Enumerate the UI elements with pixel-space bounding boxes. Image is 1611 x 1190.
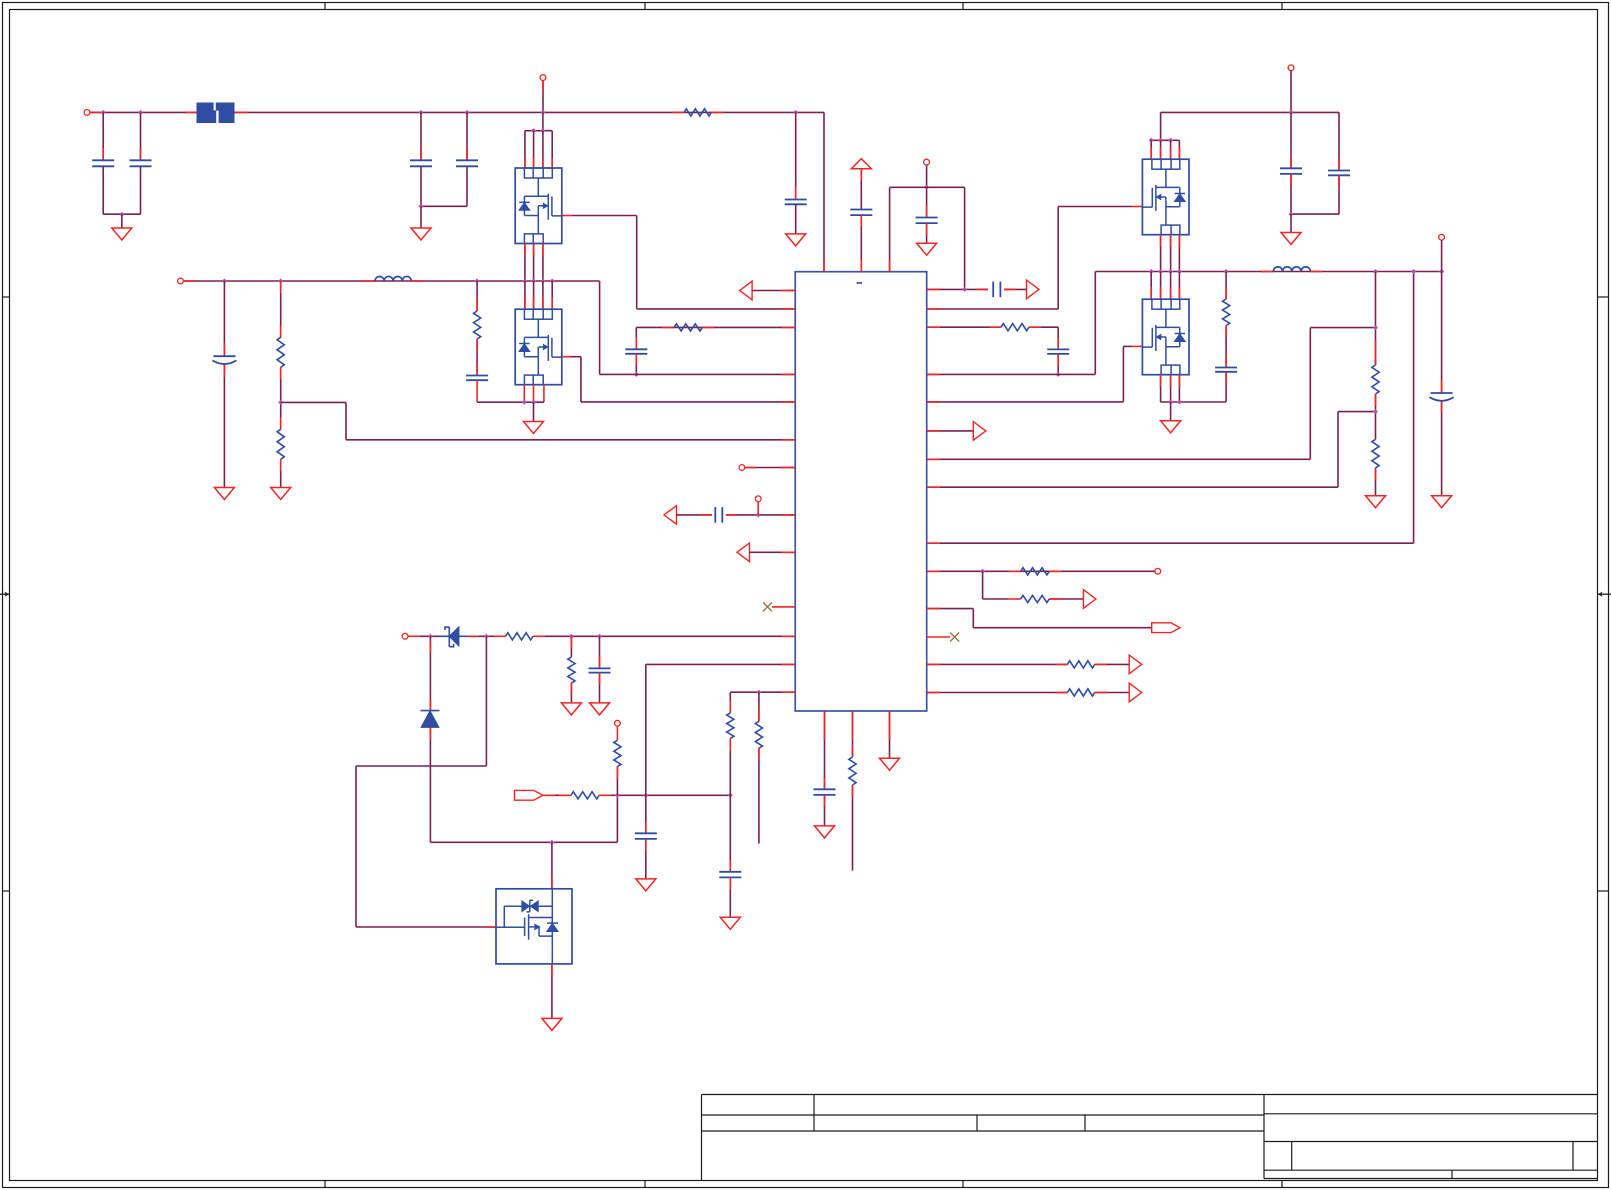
title block sub tick	[1451, 1170, 1453, 1178]
junction Q1 bus a	[531, 128, 536, 133]
wire pgood route	[972, 609, 974, 628]
junction Q4 src a	[1168, 400, 1173, 405]
Q2 channel arrow	[543, 345, 547, 350]
wire R11 lead	[758, 692, 760, 721]
fuse F1	[197, 103, 235, 124]
zener diode D1	[440, 635, 468, 637]
wire Q1 riser	[542, 112, 544, 130]
wire VIN2 rail	[1161, 111, 1339, 113]
wire Q3 drain bus	[1151, 139, 1179, 141]
Q1 top pin row	[524, 168, 552, 178]
wire Q5 drain riser	[551, 842, 553, 889]
Q1 bottom pin row	[524, 234, 543, 244]
Q5 mosfet symbol	[496, 889, 552, 940]
border tick bottom 2	[644, 1181, 646, 1188]
junction pin374R	[1056, 372, 1061, 377]
wire C9 lead	[599, 636, 601, 668]
wire red stub R8 left	[559, 794, 571, 796]
wire C9 bottom	[599, 673, 601, 703]
arrow pin290	[740, 281, 753, 300]
resistor R2	[277, 337, 284, 367]
resistor R3	[277, 429, 284, 459]
ground GND18	[1432, 496, 1452, 508]
wire R17 right	[1095, 692, 1130, 694]
wire VIN2 corner	[1338, 112, 1340, 170]
wire cap C1 lead	[102, 112, 104, 160]
wire Q3 gate route	[1057, 207, 1059, 310]
junction y795 c	[728, 793, 733, 798]
ground GND4	[214, 488, 234, 500]
wire boot rail	[430, 841, 617, 843]
capacitor C10	[635, 832, 657, 834]
flag PGOOD	[515, 790, 543, 800]
wire red stub IC pin327L	[782, 326, 795, 328]
junction y795 b	[643, 793, 648, 798]
wire J8 stem	[926, 165, 928, 218]
wire Q1 pin7	[542, 131, 544, 168]
wire Q2 source pins	[523, 385, 525, 403]
junction SW1 g	[550, 279, 555, 284]
wire red stub IC pin402L	[782, 401, 795, 403]
wire red stub R6 right	[533, 635, 545, 637]
junction SW1 a	[222, 279, 227, 284]
wire vout sense riser	[1413, 272, 1415, 544]
junction pin289	[962, 287, 967, 292]
junction VIN c	[419, 110, 424, 115]
wire CP1 bottom	[223, 365, 225, 488]
border center arrow right	[1598, 593, 1611, 595]
resistor R4	[474, 311, 481, 339]
wire vsense hi	[1309, 328, 1311, 460]
wire VCC stem	[860, 169, 862, 210]
junction pin692	[756, 690, 761, 695]
wire red Q4 drain stubs	[1150, 287, 1152, 299]
resistor R19	[1372, 365, 1379, 394]
capacitor C11	[719, 871, 741, 873]
capacitor C8 series	[714, 507, 716, 523]
flag pin609 flag	[1152, 623, 1180, 633]
wire bst right	[964, 187, 966, 289]
wire red stub L1 left	[363, 280, 375, 282]
wire Q1 source pins	[524, 244, 526, 282]
wire Q3 source pins	[1160, 235, 1162, 272]
wire J10 stem	[1290, 71, 1292, 113]
wire red stub J3	[183, 280, 196, 282]
wire Q4 source pins	[1160, 375, 1162, 402]
wire R11 bottom	[758, 748, 760, 843]
resistor R1	[684, 109, 711, 116]
wire R2-R3	[280, 367, 282, 429]
transistor Q1 body	[515, 168, 562, 244]
wire red stub pin637R	[927, 636, 950, 638]
wire vsense chain top	[1375, 272, 1377, 366]
wire R10 bottom	[729, 738, 731, 871]
wire Q3 pin6	[1160, 140, 1162, 159]
title block sub divider v4	[1291, 1142, 1293, 1171]
junction SW1 f	[540, 279, 545, 284]
border tick left 2	[3, 890, 10, 892]
wire pin309R	[927, 308, 1058, 310]
wire R20 bottom	[1375, 468, 1377, 496]
title block right box	[1264, 1095, 1597, 1179]
Q4 body diode	[1175, 333, 1185, 335]
Q2 body diode	[519, 343, 529, 345]
wire Q3 riser	[1160, 112, 1162, 140]
resistor R13	[1001, 324, 1029, 331]
junction SW2 a	[1149, 269, 1154, 274]
wire C1-C2 join	[103, 213, 140, 215]
wire pin459R	[927, 458, 1311, 460]
wire red stub Q3 gate	[1132, 206, 1142, 208]
junction zener b	[484, 634, 489, 639]
wire VIN rail	[90, 111, 824, 113]
wire red stub Q5 gate	[486, 926, 496, 928]
capacitor C15 series	[992, 282, 994, 298]
wire cap C3 lead	[420, 112, 422, 160]
wire C3 bottom	[420, 166, 422, 206]
wire bst left	[889, 187, 891, 271]
wire C5 bottom	[795, 204, 797, 234]
junction zener c	[569, 634, 574, 639]
wire R9 bottom	[616, 767, 618, 796]
junction VIN d	[465, 110, 470, 115]
junction vsense hi	[1373, 325, 1378, 330]
wire red stub R5 right	[702, 326, 714, 328]
wire cap C2 lead	[140, 112, 142, 160]
wire red Q2 drain stubs	[524, 297, 526, 309]
power symbol VCC	[851, 159, 871, 169]
wire Q3 pin8	[1178, 140, 1180, 159]
wire red R10 top	[729, 701, 731, 713]
wire pin664 net	[646, 663, 795, 665]
wire red stub L2 right	[1310, 271, 1322, 273]
wire pin289R	[927, 288, 988, 290]
wire J5 stem	[757, 502, 759, 515]
wire C16 bottom	[1057, 354, 1059, 375]
Q3 mosfet symbol	[1142, 169, 1179, 225]
junction boot	[549, 840, 554, 845]
junction Q3 bus a	[1149, 138, 1154, 143]
wire R18 lead	[1225, 272, 1227, 300]
border tick right 1	[1598, 296, 1609, 298]
wire pin327L	[636, 326, 795, 328]
junction VIN a	[101, 110, 106, 115]
border tick bottom 1	[324, 1181, 326, 1188]
wire gnd stem 5	[1170, 402, 1172, 421]
wire R7 lead	[570, 636, 572, 657]
wire pin664R	[927, 663, 1068, 665]
wire red Q1 source stubs	[524, 244, 526, 256]
wire pin692 net	[730, 691, 759, 693]
wire C18 bottom	[1338, 175, 1340, 214]
wire Q5 source	[551, 964, 553, 1019]
capacitor C9	[589, 667, 611, 669]
resistor R11	[755, 721, 762, 748]
wire R18 bottom	[1225, 326, 1227, 368]
Q5 body diode	[547, 922, 558, 924]
wire pin609R	[927, 608, 974, 610]
wire bst link	[890, 186, 965, 188]
wire C16 lead	[1057, 327, 1059, 349]
junction vsense lo	[1373, 409, 1378, 414]
wire C3-C4 join	[421, 205, 467, 207]
capacitor C16	[1047, 348, 1069, 350]
border tick bottom 3	[962, 1181, 964, 1188]
wire SW1 corner	[599, 281, 601, 374]
wire D2 lead	[429, 636, 431, 710]
wire y795 line	[611, 794, 730, 796]
wire pin402R	[927, 401, 1124, 403]
wire SW2 feed	[1094, 272, 1096, 375]
wire Q1 pin6	[533, 131, 535, 168]
wire C12 bottom	[824, 795, 826, 826]
border tick top 3	[962, 3, 964, 10]
Q2 bottom pin row	[524, 375, 543, 385]
border tick top 4	[1281, 3, 1283, 10]
wire flag lead	[543, 794, 571, 796]
wire red C10 lead	[645, 821, 647, 833]
wire Q1 pin8	[551, 131, 553, 168]
wire Q2 gate stub	[562, 356, 571, 358]
title block divider v1	[813, 1095, 815, 1132]
wire R3 bottom	[280, 459, 282, 487]
arrow pin515	[664, 506, 677, 525]
wire Q2 gate route	[571, 356, 581, 358]
wire vsense lo	[1337, 412, 1339, 488]
wire R12 bottom	[852, 785, 854, 871]
wire cap C4 lead	[466, 112, 468, 160]
ground GND10	[720, 917, 740, 929]
border tick right 2	[1598, 890, 1609, 892]
wire terminal J2 riser	[542, 80, 544, 112]
junction pin515	[756, 512, 761, 517]
wire pin374L	[600, 373, 796, 375]
wire R4 lead	[476, 281, 478, 311]
wire pin487R	[927, 486, 1338, 488]
wire SW1 rail	[183, 280, 599, 282]
wire red stub R6 left	[494, 635, 506, 637]
wire red stub IC pin374L	[782, 373, 795, 375]
wire R13 right	[1029, 326, 1058, 328]
title block sub divider v5	[1572, 1142, 1574, 1171]
arrow ss arrow	[1083, 590, 1096, 609]
wire C7 bottom	[635, 354, 637, 375]
ground GND5	[271, 488, 291, 500]
wire red stub R1 right	[711, 111, 723, 113]
ground GND11	[542, 1018, 562, 1030]
wire red stub F1 right	[235, 111, 249, 113]
wire R9 chain	[616, 723, 618, 740]
junction SW2 c	[1168, 269, 1173, 274]
junction zener a	[428, 634, 433, 639]
Q2 mosfet symbol	[524, 319, 561, 375]
wire gnd stem 4	[1290, 214, 1292, 232]
junction SW2 e	[1224, 269, 1229, 274]
capacitor C1	[92, 159, 114, 161]
Q4 bottom pin row	[1161, 365, 1180, 375]
junction VIN b	[138, 110, 143, 115]
wire R2 lead	[280, 281, 282, 337]
wire red stub L1 right	[411, 280, 423, 282]
title block divider v2	[976, 1115, 978, 1131]
wire VDD cap lead	[795, 112, 797, 199]
wire R7 bottom	[570, 683, 572, 703]
wire pin515 a	[677, 514, 713, 516]
junction Q3 bus b	[1158, 138, 1163, 143]
capacitor C4	[456, 159, 478, 161]
wire red stub R5 left	[662, 326, 674, 328]
capacitor C19	[1215, 367, 1237, 369]
wire gnd stem 3	[533, 402, 535, 421]
diode D2	[421, 710, 440, 712]
resistor R20	[1372, 439, 1379, 468]
wire J6 stub	[408, 635, 420, 637]
wire C14 bottom	[926, 223, 928, 243]
terminal J6	[402, 633, 408, 639]
wire FB1 route	[281, 401, 346, 403]
ground GND12	[815, 826, 835, 838]
wire D2 bottom	[429, 727, 431, 842]
junction SW2 d	[1177, 269, 1182, 274]
wire zener net a	[420, 635, 440, 637]
wire zener net c	[545, 635, 795, 637]
arrow pin552	[737, 543, 750, 562]
ground GND7	[561, 703, 581, 715]
ground GND13	[880, 758, 900, 770]
junction VIN2	[1289, 110, 1294, 115]
resistor R15	[1021, 595, 1050, 602]
ground GND6	[524, 422, 544, 434]
wire zener net b	[468, 635, 496, 637]
wire Q3 pin7	[1170, 140, 1172, 159]
wire red Q4 source stubs	[1160, 375, 1162, 387]
wire pin431R	[927, 430, 974, 432]
capacitor C12	[814, 788, 836, 790]
ground GND3	[786, 234, 806, 246]
junction Q3 bus c	[1168, 138, 1173, 143]
resistor R5	[674, 324, 702, 331]
wire pin374R	[927, 373, 1096, 375]
junction Q1 bus b	[540, 128, 545, 133]
wire C13 bottom	[860, 215, 862, 272]
wire red stub Q4 gate	[1132, 345, 1142, 347]
Q4 mosfet symbol	[1142, 309, 1179, 365]
border center arrow left	[0, 593, 9, 595]
wire Q1 drain bus	[525, 130, 552, 132]
wire Q1 gate route	[572, 215, 637, 217]
terminal J1	[84, 110, 90, 116]
wire red stub L2 left	[1261, 271, 1273, 273]
Q5 tvs diode	[504, 900, 552, 927]
wire C15 right	[1004, 288, 1027, 290]
border tick bottom 4	[1281, 1181, 1283, 1188]
IC U1 pin1 mark	[857, 282, 863, 284]
transistor Q5 body	[496, 889, 572, 964]
wire EN loop	[485, 636, 487, 766]
resistor R7	[568, 657, 575, 683]
wire CP1 lead	[223, 281, 225, 356]
wire red stub IC pin607L	[772, 606, 795, 608]
junction Q2 src b	[531, 400, 536, 405]
title block left box	[702, 1095, 1265, 1181]
junction SW1 e	[531, 279, 536, 284]
junction y795 a	[615, 793, 620, 798]
capacitor C7	[625, 348, 647, 350]
resistor R16	[1067, 661, 1094, 668]
wire red R19 top	[1375, 353, 1377, 365]
resistor R9	[614, 740, 621, 766]
Q1 mosfet symbol	[524, 178, 561, 234]
wire pin552L	[750, 551, 796, 553]
resistor R18	[1223, 299, 1230, 326]
Q3 bottom pin row	[1161, 225, 1180, 235]
junction Q4 src b	[1177, 400, 1182, 405]
wire Q3 pin5	[1150, 140, 1152, 159]
inductor L2	[1273, 267, 1310, 272]
wire red stub R15 left	[1009, 598, 1021, 600]
ground GND14	[917, 243, 937, 255]
wire C11 bottom	[729, 877, 731, 917]
arrow pin431	[973, 422, 986, 441]
ground GND2	[411, 228, 431, 240]
wire CP2 bottom	[1441, 401, 1443, 495]
wire C6 bottom	[476, 380, 478, 402]
wire R4-C6	[476, 339, 478, 376]
wire red stub F1 left	[185, 111, 197, 113]
wire Q2 source bus	[477, 401, 544, 403]
terminal J5	[755, 496, 761, 502]
title block divider v3	[1084, 1115, 1086, 1131]
inductor L1	[375, 276, 411, 281]
resistor R6	[506, 633, 533, 640]
junction VIN e	[541, 110, 546, 115]
wire pin692R	[927, 692, 1068, 694]
terminal J8	[924, 159, 930, 165]
ground GND1	[112, 228, 132, 240]
wire red stub IC pin692L	[782, 691, 795, 693]
ground GND15	[1281, 233, 1301, 245]
terminal J4	[739, 465, 745, 471]
wire C2 bottom	[140, 166, 142, 214]
resistor R17	[1067, 689, 1094, 696]
wire red stub IC pin440L	[782, 439, 795, 441]
junction SW1 c	[475, 279, 480, 284]
resistor R14	[1021, 568, 1050, 575]
wire C7 lead	[635, 327, 637, 349]
junction Q2 src a	[522, 400, 527, 405]
wire C17 lead	[1290, 112, 1292, 168]
wire C17-C18 join	[1291, 213, 1339, 215]
IC U1 body	[795, 272, 927, 711]
ground GND17	[1366, 496, 1386, 508]
wire pin327R	[927, 326, 1001, 328]
transistor Q2 body	[515, 309, 562, 385]
wire GND pin	[889, 711, 891, 758]
wire boot corner	[616, 795, 618, 843]
wire red stub R1 left	[672, 111, 684, 113]
capacitor CP1 polarized	[213, 355, 235, 357]
wire R16 right	[1095, 663, 1130, 665]
wire C10 bottom	[645, 839, 647, 879]
wire gnd stem 1	[121, 214, 123, 228]
wire SW2 rail	[1151, 271, 1441, 273]
terminal J2	[540, 75, 546, 81]
wire red stub IC pin309L	[782, 308, 795, 310]
wire red Q3 source stubs	[1160, 235, 1162, 247]
junction FB1	[278, 400, 283, 405]
junction SW1 b	[278, 279, 283, 284]
wire gnd stem 2	[420, 206, 422, 228]
